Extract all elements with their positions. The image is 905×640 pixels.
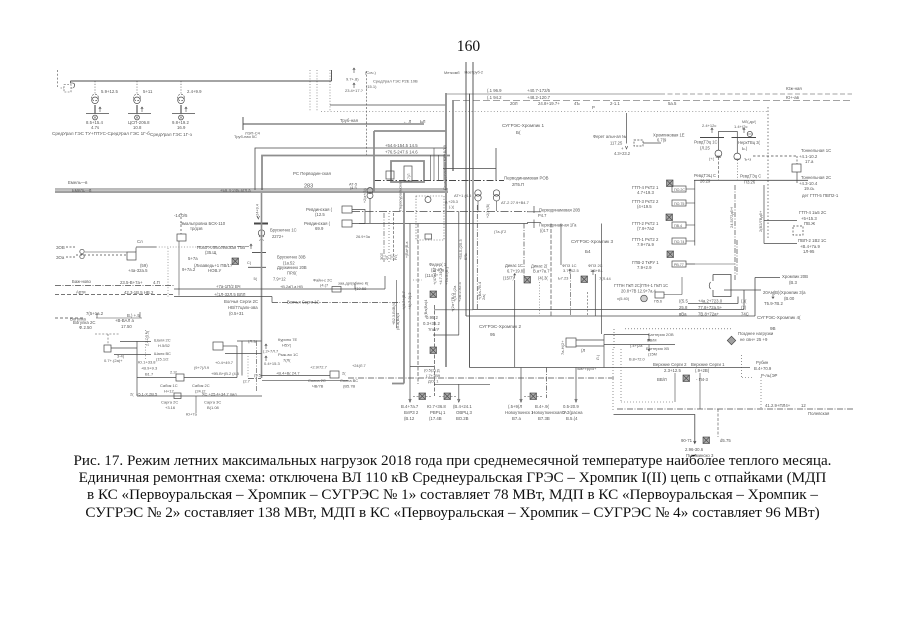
unit inner rect U1 bbox=[404, 166, 412, 181]
wire grey trunk x446 bbox=[445, 93, 447, 367]
svg-text:+3.16: +3.16 bbox=[165, 405, 176, 410]
svg-text:ПВП-2 1В2 1С: ПВП-2 1В2 1С bbox=[798, 238, 826, 243]
svg-text:2.4+9.9: 2.4+9.9 bbox=[187, 89, 202, 94]
meter circle bbox=[747, 131, 752, 136]
svg-text:не свн+ 25 +9: не свн+ 25 +9 bbox=[740, 337, 768, 342]
svg-text:5а.5: 5а.5 bbox=[668, 101, 677, 106]
svg-text:(.)(: (.)( bbox=[449, 205, 455, 209]
wire dotted x145 bbox=[145, 330, 147, 359]
wire y366 stub right bbox=[410, 366, 434, 368]
wire shalya link bbox=[111, 347, 137, 349]
svg-text:- П4-3: - П4-3 bbox=[696, 377, 709, 382]
svg-text:(В.00: (В.00 bbox=[784, 296, 795, 301]
wire hook at bus start bbox=[70, 81, 74, 88]
svg-text:П5.6: П5.6 bbox=[654, 300, 662, 304]
bus Pervodinamovaya dashdot bbox=[374, 180, 504, 182]
caption line 1 bbox=[0, 453, 905, 470]
caption line 2 bbox=[0, 470, 905, 487]
line Polevskaya dashdot bbox=[617, 408, 853, 410]
breaker Revdinskaya 50 bbox=[342, 220, 352, 227]
breaker Tonnelnaya bbox=[796, 156, 798, 164]
substation dark VS bbox=[683, 375, 690, 382]
bus Emelino grey bbox=[55, 190, 448, 193]
frame big outer bottom bbox=[466, 315, 755, 317]
svg-text:4.7s: 4.7s bbox=[91, 125, 99, 130]
svg-text:(В.4+24.1: (В.4+24.1 bbox=[453, 404, 472, 409]
transformer RevdTEC bbox=[717, 137, 719, 150]
wire x604 drop bbox=[603, 335, 605, 368]
svg-text:0.95 2: 0.95 2 bbox=[426, 315, 439, 320]
breaker Sabik bbox=[176, 374, 184, 381]
svg-text:В.4+.9(: В.4+.9( bbox=[535, 404, 550, 409]
svg-text:ПО.2С: ПО.2С bbox=[674, 188, 685, 192]
bus tick at x95 bbox=[86, 113, 109, 115]
breaker Sosna bbox=[330, 371, 339, 378]
svg-text:+2(а+(5(): +2(а+(5() bbox=[363, 188, 367, 203]
wire kurino riser bbox=[223, 345, 237, 347]
svg-text:Труб-ная: Труб-ная bbox=[340, 118, 359, 123]
caption line 4 bbox=[0, 505, 905, 522]
svg-text:С(: С( bbox=[247, 261, 252, 265]
wire x179 drop bbox=[178, 241, 180, 296]
svg-text:2(В2/7Вд5+: 2(В2/7Вд5+ bbox=[758, 210, 763, 232]
svg-text:+(Ва+(В.а: +(Ва+(В.а bbox=[405, 242, 409, 258]
svg-text:+24+9.4: +24+9.4 bbox=[256, 204, 260, 218]
frame big inner bottom bbox=[473, 309, 744, 311]
arrow batt 1 bbox=[648, 335, 650, 342]
svg-text:7.9+7а.9: 7.9+7а.9 bbox=[637, 242, 654, 247]
svg-text:77.8+72а.5+: 77.8+72а.5+ bbox=[698, 305, 723, 310]
svg-text:(19.58: (19.58 bbox=[355, 286, 367, 291]
substation X b bbox=[444, 393, 451, 400]
wire net y247 bbox=[136, 246, 156, 248]
svg-text:6.7+19.8: 6.7+19.8 bbox=[507, 269, 524, 274]
stub Pervodinamovaya 1Ga bbox=[533, 220, 535, 229]
frame big outer left edge bbox=[465, 62, 467, 316]
svg-text:СредУрал ГЭС ТУ+ПТУС-СредУрал: СредУрал ГЭС ТУ+ПТУС-СредУрал ГЭС 1Г-б bbox=[52, 131, 150, 136]
wire riser x744 bbox=[743, 290, 745, 310]
svg-text:4.7+19.3: 4.7+19.3 bbox=[637, 190, 654, 195]
svg-text:Т5.9-7В.2: Т5.9-7В.2 bbox=[764, 301, 783, 306]
svg-text:+59.4-245.6гл.а: +59.4-245.6гл.а bbox=[220, 188, 251, 193]
breaker Kurino bbox=[213, 342, 223, 350]
wire hub drop x614 bbox=[613, 329, 615, 349]
svg-text:Р4.7: Р4.7 bbox=[538, 213, 547, 218]
wire bus right end riser bbox=[331, 70, 333, 81]
svg-text:2(: 2( bbox=[130, 392, 134, 397]
svg-text:ЧВ/7В: ЧВ/7В bbox=[312, 384, 324, 389]
svg-text:Ь7.23: Ь7.23 bbox=[558, 276, 569, 281]
wire hub drop x418 bbox=[417, 224, 419, 385]
svg-text:Н5У(: Н5У( bbox=[282, 343, 292, 348]
substation dark GTP a bbox=[666, 214, 673, 221]
wire hub drop x601 bbox=[601, 224, 603, 335]
wire grey bus y131 bbox=[374, 130, 446, 132]
wire corner x272 bbox=[271, 297, 273, 303]
svg-text:+9В.В+(В.2 (4.5: +9В.В+(В.2 (4.5 bbox=[211, 371, 239, 376]
svg-text:+В.9+9.3: +В.9+9.3 bbox=[141, 366, 158, 371]
svg-text:+54.6-154.5 14.5: +54.6-154.5 14.5 bbox=[385, 143, 418, 148]
svg-text:((5.5: ((5.5 bbox=[679, 299, 688, 304]
bus Sredneuralskaya GRES 110kV bbox=[70, 80, 331, 82]
wire drop Novoutkinsk2 bbox=[546, 368, 548, 399]
transformer T at x137 bbox=[136, 81, 138, 94]
svg-text:Шаля ВС: Шаля ВС bbox=[154, 351, 171, 356]
svg-text:В.8+72.0: В.8+72.0 bbox=[629, 357, 646, 362]
wire grey stub bottom bbox=[392, 383, 404, 385]
svg-text:7(Л: 7(Л bbox=[390, 254, 394, 260]
svg-text:Н.5/52: Н.5/52 bbox=[158, 343, 171, 348]
svg-text:Л.(: Л.( bbox=[595, 354, 600, 360]
substation X c bbox=[530, 393, 537, 400]
svg-text:7.9+12: 7.9+12 bbox=[273, 277, 286, 282]
wire y277 to Khrompik 20V bbox=[755, 277, 780, 279]
wire transformer drops bbox=[717, 157, 719, 180]
svg-text:Р: Р bbox=[592, 105, 595, 110]
svg-text:(В.3: (В.3 bbox=[789, 280, 797, 285]
wire dotted x389 bbox=[388, 213, 390, 262]
svg-text:5.9+12.5: 5.9+12.5 bbox=[101, 89, 118, 94]
svg-text:+В-ВАЛ а: +В-ВАЛ а bbox=[115, 318, 135, 323]
svg-text:(15/7): (15/7) bbox=[503, 276, 514, 281]
svg-text:7(Л.44: 7(Л.44 bbox=[599, 276, 612, 281]
bus tick 3 bbox=[248, 266, 266, 268]
wire dashdot x384 bbox=[383, 213, 385, 262]
svg-text:Полевская: Полевская bbox=[808, 411, 830, 416]
svg-text:4.3+23.2: 4.3+23.2 bbox=[614, 151, 631, 156]
svg-text:В.4+7а.7: В.4+7а.7 bbox=[401, 404, 419, 409]
svg-text:1.4+(2с: 1.4+(2с bbox=[734, 124, 747, 129]
region dotted border x613 bbox=[612, 349, 614, 411]
svg-text:7(Л(: 7(Л( bbox=[283, 358, 291, 363]
svg-text:В.а+7а.7: В.а+7а.7 bbox=[533, 269, 550, 274]
svg-text:В.4+70.9: В.4+70.9 bbox=[754, 366, 772, 371]
svg-text:20.8+7В 12.9+7а.4: 20.8+7В 12.9+7а.4 bbox=[621, 289, 657, 294]
breaker Shalya bbox=[104, 345, 111, 352]
wire frame drops x430 bbox=[430, 155, 432, 181]
wire kurino line y341 bbox=[237, 340, 262, 342]
wire GTPN link bbox=[664, 294, 682, 296]
svg-text:ПО.75: ПО.75 bbox=[674, 202, 684, 206]
wire thin x396 bbox=[396, 280, 398, 328]
breaker box Feretalnaya bbox=[634, 140, 643, 146]
unit grey box U1 bbox=[391, 161, 424, 182]
breaker Revdinskaya 110 bbox=[342, 206, 352, 213]
substation dark GTP b bbox=[667, 251, 674, 258]
caption line 3 bbox=[0, 487, 905, 504]
svg-text:1.3+В1: 1.3+В1 bbox=[590, 268, 604, 273]
svg-text:Эмальпровна БСК-110: Эмальпровна БСК-110 bbox=[180, 221, 226, 226]
svg-text:Сабик 2С: Сабик 2С bbox=[192, 383, 210, 388]
bus hub y211 dashdot bbox=[352, 211, 528, 213]
svg-text:(15.1/2: (15.1/2 bbox=[156, 357, 169, 362]
wire GTP trunk bbox=[694, 180, 696, 245]
wire Rubin drop bbox=[760, 377, 762, 408]
svg-text:+В.4+В( 24.7: +В.4+В( 24.7 bbox=[276, 371, 300, 376]
svg-text:Б(: Б( bbox=[516, 130, 521, 135]
svg-text:Арти: Арти bbox=[76, 290, 86, 295]
svg-text:НовТруб-2: НовТруб-2 bbox=[465, 71, 484, 75]
wire dash to Tonnelnaya bbox=[753, 155, 797, 157]
svg-text:(В.12: (В.12 bbox=[404, 416, 415, 421]
arrow FPZ bbox=[569, 269, 571, 274]
arrow load at x181 bbox=[185, 107, 187, 112]
svg-text:20АН(В)(Хромпик 3(а: 20АН(В)(Хромпик 3(а bbox=[763, 290, 806, 295]
substation dark Dinas bbox=[524, 277, 531, 284]
svg-text:69.9: 69.9 bbox=[315, 226, 324, 231]
svg-text:(7а-(Г2: (7а-(Г2 bbox=[494, 230, 506, 234]
wire dashed x393 bbox=[393, 213, 395, 262]
line dashdot y302 bbox=[272, 302, 400, 304]
page number bbox=[0, 38, 905, 56]
frame big mid bottom bbox=[470, 367, 751, 369]
svg-text:7(Л: 7(Л bbox=[407, 173, 411, 179]
svg-text:(4+19.5: (4+19.5 bbox=[637, 204, 652, 209]
wire dotted region border x768 bbox=[767, 107, 769, 240]
svg-text:Дружинино 20В: Дружинино 20В bbox=[277, 265, 307, 270]
svg-text:ЗОЛ: ЗОЛ bbox=[380, 252, 384, 260]
wire feeder x626 bbox=[626, 113, 628, 144]
wire drop Novoutkinsk1 bbox=[520, 368, 522, 401]
substation dark F1 bbox=[430, 291, 437, 298]
svg-text:+2.9/72.7: +2.9/72.7 bbox=[310, 365, 328, 370]
svg-text:2а(: 2а( bbox=[481, 294, 486, 300]
svg-text:+48.2-120.7: +48.2-120.7 bbox=[527, 95, 551, 100]
svg-text:+5.1-Х.2В.5: +5.1-Х.2В.5 bbox=[136, 392, 158, 397]
svg-text:283: 283 bbox=[304, 184, 313, 190]
svg-text:В7.3В: В7.3В bbox=[538, 416, 550, 421]
svg-text:(0.5+31: (0.5+31 bbox=[229, 311, 244, 316]
bus tick at x181 bbox=[172, 113, 195, 115]
svg-text:42.3-1В.5 НВ.2: 42.3-1В.5 НВ.2 bbox=[124, 290, 154, 295]
svg-text:Перводинам-ая 1Га: Перводинам-ая 1Га bbox=[539, 223, 577, 228]
svg-text:+7а.3-(В.): +7а.3-(В.) bbox=[444, 266, 449, 285]
svg-text:Перводинамовая РОВ: Перводинамовая РОВ bbox=[504, 176, 549, 181]
wire dotted x539 bbox=[539, 282, 541, 316]
svg-text:((4.7: ((4.7 bbox=[540, 228, 549, 233]
svg-text:В1.7: В1.7 bbox=[145, 372, 154, 377]
bus tick Brusnichnoye bbox=[254, 223, 268, 225]
svg-text:ГТПН ПкП 2С(ГПН-1 ПкП 1С: ГТПН ПкП 2С(ГПН-1 ПкП 1С bbox=[614, 283, 668, 288]
svg-text:Шаля 2С: Шаля 2С bbox=[154, 338, 171, 343]
arrow load at x137 bbox=[141, 107, 143, 112]
wire Dinas drop bbox=[514, 280, 516, 367]
frame outer RS bbox=[255, 148, 446, 190]
svg-text:10.8: 10.8 bbox=[133, 125, 142, 130]
unit Khrompik bracket box bbox=[713, 275, 731, 297]
svg-text:(.4+(2а: (.4+(2а bbox=[630, 343, 643, 348]
svg-text:2.4+12с: 2.4+12с bbox=[702, 123, 716, 128]
svg-text:+4а-32а.5: +4а-32а.5 bbox=[128, 268, 148, 273]
line Arti dash bbox=[55, 294, 174, 296]
svg-text:74С: 74С bbox=[741, 312, 749, 317]
svg-text:+0.4+49.7: +0.4+49.7 bbox=[215, 360, 234, 365]
svg-text:экв+тру/5+: экв+тру/5+ bbox=[577, 366, 597, 371]
wire row1 line bbox=[688, 303, 738, 305]
wire tie-line 1 to Yuzhnaya bbox=[446, 93, 660, 95]
svg-text:Сарга 3С: Сарга 3С bbox=[204, 400, 221, 405]
capacitor BSK box bbox=[177, 234, 186, 241]
svg-text:(.1 94.2: (.1 94.2 bbox=[487, 95, 502, 100]
svg-text:24.8+19.7+: 24.8+19.7+ bbox=[538, 101, 560, 106]
svg-text:+76.5-247.6 14.6: +76.5-247.6 14.6 bbox=[385, 150, 418, 155]
svg-text:← Л: ← Л bbox=[403, 119, 411, 124]
transformer VerkhTEC bbox=[736, 137, 738, 153]
wire dotted y280 bbox=[413, 279, 422, 281]
svg-text:0.4+15.3: 0.4+15.3 bbox=[264, 361, 280, 366]
svg-text:СУГРЭС-Хромпик 2: СУГРЭС-Хромпик 2 bbox=[479, 324, 521, 329]
svg-text:0.5-20.9: 0.5-20.9 bbox=[563, 404, 579, 409]
svg-text:16.9: 16.9 bbox=[177, 125, 186, 130]
wire dashdot to box top bbox=[736, 240, 738, 275]
svg-text:Рубин: Рубин bbox=[756, 360, 769, 365]
svg-text:9+7а.2: 9+7а.2 bbox=[182, 267, 196, 272]
region dotted top edge bbox=[625, 328, 733, 330]
svg-text:Р-ль(ЭР: Р-ль(ЭР bbox=[761, 373, 778, 378]
svg-text:(15М: (15М bbox=[648, 352, 657, 357]
svg-text:(9+7(Л.9: (9+7(Л.9 bbox=[194, 365, 209, 370]
wire grey feeder x261 south bbox=[261, 193, 263, 378]
bus tick at x137 bbox=[128, 113, 151, 115]
svg-text:26.29: 26.29 bbox=[700, 179, 711, 184]
svg-text:ЗОВ: ЗОВ bbox=[56, 245, 65, 250]
wire corner to Pyshma bbox=[614, 415, 697, 444]
svg-text:Ъ+з: Ъ+з bbox=[744, 157, 751, 162]
svg-text:ГАЗ(расна: ГАЗ(расна bbox=[562, 410, 583, 415]
meter ATa bbox=[425, 197, 431, 203]
svg-text:2.2(: 2.2( bbox=[170, 370, 178, 375]
svg-text:Бруснично 30В: Бруснично 30В bbox=[277, 255, 306, 260]
svg-text:ВО.2В: ВО.2В bbox=[456, 416, 469, 421]
svg-text:В(1.08: В(1.08 bbox=[207, 405, 220, 410]
meter at x137 bbox=[135, 115, 140, 120]
breaker Bitimka box bbox=[566, 338, 576, 347]
svg-text:17.50: 17.50 bbox=[121, 324, 132, 329]
wire x764 drop bbox=[763, 185, 765, 244]
svg-text:95: 95 bbox=[490, 332, 496, 337]
svg-text:(.2+7Л.7: (.2+7Л.7 bbox=[263, 349, 279, 354]
breaker in U1 bbox=[386, 171, 394, 179]
wire dashed risers bbox=[309, 70, 311, 112]
svg-text:(Л: (Л bbox=[581, 348, 585, 353]
transformer T at x95 bbox=[94, 81, 96, 94]
svg-text:ВлРЗ 2: ВлРЗ 2 bbox=[404, 410, 419, 415]
wire AT drop bbox=[369, 198, 371, 223]
svg-text:Бруснично 1С: Бруснично 1С bbox=[270, 228, 297, 233]
svg-text:(15.1): (15.1) bbox=[366, 84, 377, 89]
breaker Sarga bbox=[174, 393, 181, 399]
wire dotted x248 bbox=[247, 356, 249, 379]
svg-text:2.4+(3.5(: 2.4+(3.5( bbox=[146, 330, 150, 346]
svg-text:4.П: 4.П bbox=[153, 280, 160, 285]
svg-text:дет ГТП-5 ПВП2-1: дет ГТП-5 ПВП2-1 bbox=[802, 193, 839, 198]
svg-text:-14.0/5: -14.0/5 bbox=[174, 213, 188, 218]
wire hub drop x551 bbox=[550, 224, 552, 317]
svg-text:(12.5: (12.5 bbox=[315, 212, 325, 217]
svg-text:(В5.7В: (В5.7В bbox=[343, 384, 356, 389]
region dotted inner bottom bbox=[621, 401, 675, 403]
wire y168 link bbox=[443, 168, 496, 170]
svg-text:Курино 7Е: Курино 7Е bbox=[278, 337, 298, 342]
wire tie-line 2 bbox=[453, 100, 852, 102]
svg-text:Емель—в: Емель—в bbox=[68, 180, 88, 185]
substation dark GTP top bbox=[667, 180, 674, 187]
unit dashed box AT bbox=[416, 196, 444, 240]
svg-text:(7): (7) bbox=[741, 305, 747, 310]
svg-text:Меткомб: Меткомб bbox=[444, 71, 460, 75]
wire link y105 bbox=[330, 104, 446, 106]
wire y296 solid bbox=[174, 296, 272, 298]
wire hub drop x410 bbox=[409, 224, 411, 401]
svg-text:(.5+9(Л: (.5+9(Л bbox=[508, 404, 522, 409]
wire right ties y243 bbox=[764, 243, 797, 245]
svg-text:2-1.1: 2-1.1 bbox=[610, 101, 620, 106]
svg-text:(.9+2В(: (.9+2В( bbox=[695, 368, 710, 373]
svg-text:Сл: Сл bbox=[137, 239, 143, 244]
wire y289 solid bbox=[174, 288, 385, 290]
wire bitimka tie2 bbox=[604, 344, 675, 346]
frame big mid left edge bbox=[469, 94, 471, 368]
bus hub y223 bbox=[359, 223, 528, 225]
svg-text:Верхние Серги 1: Верхние Серги 1 bbox=[691, 362, 725, 367]
svg-text:+2В.2-92.4: +2В.2-92.4 bbox=[457, 282, 462, 302]
svg-text:2.3+12.5: 2.3+12.5 bbox=[664, 368, 681, 373]
wire vogulka dash bbox=[55, 317, 84, 319]
wire hub drop x459 bbox=[458, 211, 460, 335]
svg-text:+4а.2+723.0: +4а.2+723.0 bbox=[698, 299, 723, 304]
svg-text:НВ/77цалк-ова: НВ/77цалк-ова bbox=[228, 305, 258, 310]
substation dark 0.95 bbox=[430, 347, 437, 354]
meter at x181 bbox=[179, 115, 184, 120]
svg-text:Труб-ная 5С: Труб-ная 5С bbox=[234, 134, 257, 139]
svg-text:Емель—в: Емель—в bbox=[72, 188, 92, 193]
svg-text:6.7(9: 6.7(9 bbox=[657, 138, 667, 143]
svg-text:ВВ/Л: ВВ/Л bbox=[657, 377, 667, 382]
wire vogulka tick bbox=[96, 313, 98, 318]
svg-text:Тоннельная 2С: Тоннельная 2С bbox=[801, 175, 831, 180]
arrow ryzhvo bbox=[265, 356, 267, 361]
wire drop GAZ bbox=[575, 368, 577, 401]
svg-text:ПР.6(: ПР.6( bbox=[287, 271, 297, 276]
svg-text:(В.а(Ва(4: (В.а(Ва(4 bbox=[395, 312, 400, 330]
svg-text:(Л.1(: (Л.1( bbox=[248, 339, 257, 344]
svg-text:Новоуткинская 2: Новоуткинская 2 bbox=[532, 410, 566, 415]
svg-text:РевдТЭц С: РевдТЭц С bbox=[740, 174, 761, 179]
wire grey feeder x404 bbox=[403, 192, 405, 384]
svg-text:(+(: (+( bbox=[709, 156, 715, 161]
wire khrompik tie y290 bbox=[724, 289, 761, 291]
svg-text:(4.(7: (4.(7 bbox=[320, 283, 329, 288]
svg-text:+(4.7+(В.7: +(4.7+(В.7 bbox=[401, 290, 406, 310]
svg-text:д.+25.3: д.+25.3 bbox=[445, 200, 458, 204]
svg-text:Сосна 2С: Сосна 2С bbox=[308, 378, 326, 383]
wire GTPN riser bbox=[681, 277, 683, 295]
generator pair left bbox=[80, 249, 84, 253]
svg-text:Фидер( 1: Фидер( 1 bbox=[429, 262, 447, 267]
wire feeder Brusnichnoye bbox=[261, 193, 263, 222]
wire trunk x137 bbox=[136, 341, 138, 396]
wire tick x355 bbox=[354, 284, 356, 290]
svg-text:Ю+-ав: Ю+-ав bbox=[786, 95, 800, 100]
wire dashdot x242 bbox=[241, 341, 243, 376]
svg-text:Б4: Б4 bbox=[585, 249, 591, 254]
svg-text:НерхТВц 3(: НерхТВц 3( bbox=[738, 140, 761, 145]
svg-text:7В.8+72а+: 7В.8+72а+ bbox=[698, 312, 720, 317]
svg-text:Баж-ново: Баж-ново bbox=[72, 279, 92, 284]
substation Druzhinino bbox=[232, 258, 239, 265]
svg-text:Верхние Серги 2: Верхние Серги 2 bbox=[653, 362, 687, 367]
wire box links bbox=[576, 339, 604, 341]
